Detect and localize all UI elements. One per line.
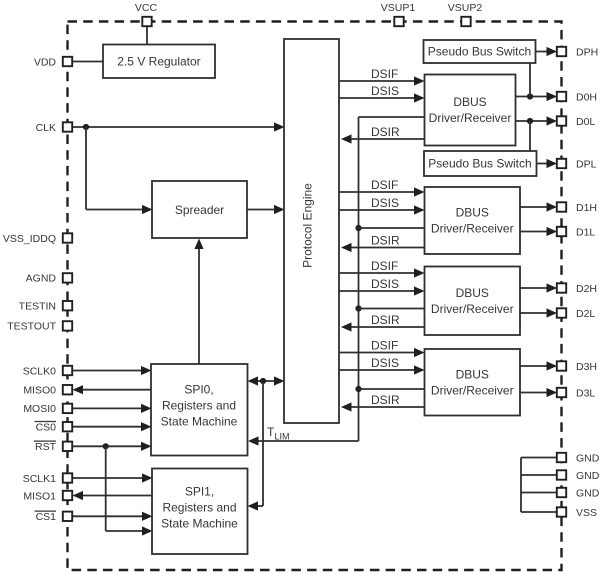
svg-text:DSIS: DSIS [371, 356, 399, 370]
wire MISO0 [75, 389, 151, 391]
svg-text:DSIS: DSIS [371, 196, 399, 210]
block Pseudo Bus Switch (bottom) [424, 151, 537, 176]
svg-text:DPH: DPH [576, 46, 598, 58]
svg-text:SPI1,: SPI1, [185, 485, 214, 499]
wire VCC pin to regulator [146, 24, 148, 45]
svg-text:MISO0: MISO0 [23, 385, 56, 397]
svg-text:TESTIN: TESTIN [19, 301, 56, 313]
svg-text:Driver/Receiver: Driver/Receiver [431, 302, 514, 316]
wire T_LIM collection vertical [358, 117, 360, 441]
wire CLK branch down to Spreader [85, 127, 87, 210]
pin RST [34, 441, 72, 453]
wire CS0 [71, 426, 149, 428]
wire SCLK0 [71, 370, 149, 372]
svg-text:DBUS: DBUS [456, 286, 489, 300]
pin MISO1 [23, 490, 72, 502]
wire D2L [520, 312, 555, 314]
wire GND/VSS bracket [520, 458, 522, 513]
block DBUS Driver/Receiver ch0 [425, 75, 516, 146]
svg-text:Registers and: Registers and [162, 399, 236, 413]
svg-text:VSS: VSS [576, 507, 597, 519]
wire DSIF ch2 [339, 272, 422, 274]
pin VDD [34, 56, 72, 68]
pin D3H [557, 361, 597, 373]
pin TESTOUT [7, 321, 72, 333]
node RST junction [103, 443, 109, 449]
svg-text:Driver/Receiver: Driver/Receiver [429, 111, 512, 125]
wire T_LIM feed ch0 [359, 116, 425, 118]
block DBUS Driver/Receiver ch1 [425, 187, 521, 254]
pin DPH [557, 46, 598, 58]
svg-text:DPL: DPL [576, 158, 597, 170]
svg-text:CS1: CS1 [36, 511, 57, 523]
wire D0L [516, 120, 556, 122]
svg-text:DSIF: DSIF [371, 67, 398, 81]
svg-text:VDD: VDD [34, 56, 57, 68]
wire DSIS ch3 [339, 369, 422, 371]
svg-text:VSUP2: VSUP2 [448, 2, 483, 14]
svg-text:D2H: D2H [576, 283, 597, 295]
svg-text:DSIS: DSIS [371, 277, 399, 291]
pin GND [557, 487, 600, 499]
svg-text:State Machine: State Machine [161, 517, 238, 531]
svg-text:DSIF: DSIF [371, 259, 398, 273]
svg-text:VSUP1: VSUP1 [381, 2, 416, 14]
wire DSIF ch0 [339, 80, 422, 82]
svg-text:D3H: D3H [576, 361, 597, 373]
block Protocol Engine [284, 39, 339, 423]
wire SCLK1 [71, 477, 150, 479]
svg-text:DSIF: DSIF [371, 178, 398, 192]
pin D2L [557, 308, 596, 320]
svg-text:D0L: D0L [576, 116, 595, 128]
svg-text:MISO1: MISO1 [23, 490, 56, 502]
pin CLK [36, 122, 73, 134]
svg-text:DBUS: DBUS [456, 367, 489, 381]
wire D1L [520, 231, 555, 233]
node SPI0 bus junction [260, 378, 266, 384]
svg-text:DBUS: DBUS [453, 95, 486, 109]
pin GND [557, 470, 600, 482]
pin D0L [557, 116, 596, 128]
wire SPI0 to Protocol Engine (bidirectional) [250, 380, 282, 382]
wire DSIR ch3 [343, 406, 425, 408]
pin DPL [557, 158, 597, 170]
block SPI1 Registers and State Machine [152, 469, 248, 555]
svg-text:D2L: D2L [576, 308, 595, 320]
pin D0H [557, 91, 597, 103]
node D0H junction [527, 93, 533, 99]
svg-text:MOSI0: MOSI0 [23, 403, 56, 415]
svg-text:LIM: LIM [275, 432, 290, 442]
svg-text:DSIR: DSIR [371, 313, 400, 327]
wire T_LIM feed ch1 [359, 227, 425, 229]
svg-text:DSIS: DSIS [371, 84, 399, 98]
wire D3L [520, 392, 555, 394]
wire D0L to pseudo switch bottom [529, 121, 531, 151]
block DBUS Driver/Receiver ch3 [425, 349, 521, 416]
pin D1H [557, 202, 597, 214]
wire D2H [520, 287, 555, 289]
wire pseudo switch top to D0H [529, 63, 531, 97]
wire DSIS ch0 [339, 97, 422, 99]
svg-text:DSIF: DSIF [371, 339, 398, 353]
wire MISO1 [75, 495, 152, 497]
svg-text:SPI0,: SPI0, [184, 383, 213, 397]
pin SCLK1 [23, 473, 72, 485]
pin CS1 [35, 511, 73, 523]
wire DPH [536, 51, 555, 53]
block Pseudo Bus Switch (top) [424, 40, 536, 63]
pin D3L [557, 387, 596, 399]
pin VCC [135, 2, 158, 26]
wire DSIS ch2 [339, 290, 422, 292]
wire Spreader output to Protocol Engine [247, 209, 282, 211]
wire D1H [520, 206, 555, 208]
svg-text:D0H: D0H [576, 91, 597, 103]
svg-text:Registers and: Registers and [162, 501, 236, 515]
block Spreader [152, 181, 247, 238]
wire MOSI0 [71, 407, 149, 409]
pin TESTIN [19, 301, 73, 313]
svg-text:Pseudo Bus Switch: Pseudo Bus Switch [428, 45, 531, 59]
pin VSS [557, 507, 597, 519]
wire T_LIM feed ch2 [359, 308, 425, 310]
svg-text:DSIR: DSIR [371, 393, 400, 407]
svg-text:D1H: D1H [576, 202, 597, 214]
pin AGND [26, 273, 73, 285]
wire T_LIM feed ch3 [359, 388, 425, 390]
svg-text:GND: GND [576, 487, 600, 499]
pin GND [557, 452, 600, 464]
svg-text:SCLK1: SCLK1 [23, 473, 56, 485]
wire CS1 [71, 515, 150, 517]
svg-text:DBUS: DBUS [456, 206, 489, 220]
wire DPL [537, 163, 556, 165]
svg-text:TESTOUT: TESTOUT [7, 321, 56, 333]
svg-text:SCLK0: SCLK0 [23, 365, 56, 377]
wire DSIS ch1 [339, 209, 422, 211]
pin SCLK0 [23, 365, 72, 377]
svg-text:RST: RST [35, 441, 57, 453]
svg-text:DSIR: DSIR [371, 125, 400, 139]
pin VSUP2 [448, 2, 483, 26]
svg-text:CLK: CLK [36, 122, 56, 134]
node CLK junction [83, 124, 89, 130]
pin VSS_IDDQ [3, 233, 72, 245]
svg-text:GND: GND [576, 452, 600, 464]
svg-text:VCC: VCC [135, 2, 158, 14]
wire RST branch to SPI1 [105, 446, 107, 531]
svg-text:CS0: CS0 [36, 422, 57, 434]
wire DSIR ch2 [343, 326, 425, 328]
node T_LIM junction ch1 [355, 225, 361, 231]
svg-text:Protocol Engine: Protocol Engine [301, 183, 315, 268]
pin D2H [557, 283, 597, 295]
svg-text:DSIR: DSIR [371, 234, 400, 248]
wire VDD pin to regulator [71, 61, 104, 63]
wire DSIF ch3 [339, 352, 422, 354]
chip boundary (dashed) [68, 22, 562, 571]
svg-text:Driver/Receiver: Driver/Receiver [431, 222, 514, 236]
node T_LIM junction ch3 [355, 386, 361, 392]
block SPI0 Registers and State Machine [151, 364, 248, 456]
pin MISO0 [23, 385, 72, 397]
svg-text:GND: GND [576, 470, 600, 482]
wire CLK to Protocol Engine [71, 126, 282, 128]
svg-text:Spreader: Spreader [175, 203, 224, 217]
wire D0H [516, 96, 556, 98]
label T_LIM [267, 425, 290, 442]
node T_LIM junction ch2 [355, 305, 361, 311]
wire RST [71, 445, 149, 447]
svg-text:State Machine: State Machine [161, 415, 238, 429]
block DBUS Driver/Receiver ch2 [425, 267, 521, 336]
pin D1L [557, 226, 596, 238]
node D0L junction [527, 118, 533, 124]
svg-text:Pseudo Bus Switch: Pseudo Bus Switch [428, 157, 531, 171]
wire DSIR ch1 [343, 247, 425, 249]
svg-text:D1L: D1L [576, 226, 595, 238]
wire DSIF ch1 [339, 191, 422, 193]
pin MOSI0 [23, 403, 72, 415]
svg-text:AGND: AGND [26, 273, 57, 285]
wire branch down to SPI1 [262, 381, 264, 506]
svg-text:VSS_IDDQ: VSS_IDDQ [3, 233, 56, 245]
block 2.5 V Regulator [103, 45, 215, 79]
wire DSIR ch0 [343, 138, 425, 140]
svg-text:2.5 V Regulator: 2.5 V Regulator [117, 55, 200, 69]
svg-text:Driver/Receiver: Driver/Receiver [431, 383, 514, 397]
pin VSUP1 [381, 2, 416, 26]
svg-text:D3L: D3L [576, 387, 595, 399]
wire D3H [520, 365, 555, 367]
wire SPI0 up to Spreader [198, 241, 200, 364]
pin CS0 [35, 422, 73, 434]
